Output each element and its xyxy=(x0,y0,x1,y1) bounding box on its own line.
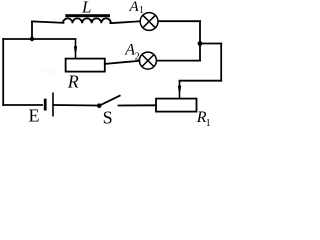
wire bottom rail to battery xyxy=(3,104,42,106)
wire R to lamp A2 xyxy=(105,61,140,64)
svg-text:S: S xyxy=(103,108,113,128)
svg-text:R: R xyxy=(67,72,79,92)
wire inductor to lamp A1 xyxy=(110,21,139,23)
inductor L coil xyxy=(63,18,111,23)
wire junction to right edge xyxy=(200,43,221,45)
wire right bus vertical xyxy=(199,21,201,60)
svg-text:1: 1 xyxy=(206,118,211,127)
node junction dot left xyxy=(30,37,34,41)
wire right edge vertical xyxy=(220,44,222,81)
svg-text:2: 2 xyxy=(135,52,140,63)
wire vertical to top rail xyxy=(31,21,33,39)
svg-text:com: com xyxy=(38,66,55,77)
switch S lever xyxy=(99,95,120,105)
wire left rail xyxy=(2,39,4,105)
rheostat R1 body xyxy=(156,99,197,112)
wire node junction left branch xyxy=(3,38,75,40)
wire top rail to inductor xyxy=(32,21,64,22)
wire lamp A1 to right bus xyxy=(159,20,201,22)
wire lamp A2 to right bus xyxy=(157,60,200,62)
svg-text:1: 1 xyxy=(139,5,144,16)
lamp A1 xyxy=(140,13,158,31)
svg-text:E: E xyxy=(29,106,40,126)
battery E plate short thick xyxy=(44,99,47,111)
svg-text:A: A xyxy=(124,41,135,58)
inductor L core bar xyxy=(65,14,110,17)
rheostat R wiper arrow xyxy=(75,39,77,58)
switch S pivot dot xyxy=(97,103,102,108)
battery E plate long thin xyxy=(52,93,54,117)
rheostat R body xyxy=(66,59,105,72)
rheostat R1 wiper arrow xyxy=(179,81,181,99)
wire switch to R1 xyxy=(119,104,157,106)
lamp A2 xyxy=(139,52,156,69)
inductor coil center blob xyxy=(90,19,92,21)
wire to R1 wiper xyxy=(180,80,222,82)
svg-text:L: L xyxy=(81,0,91,17)
svg-text:A: A xyxy=(129,0,140,15)
node junction dot right xyxy=(198,41,203,46)
wire battery to switch xyxy=(54,104,98,107)
